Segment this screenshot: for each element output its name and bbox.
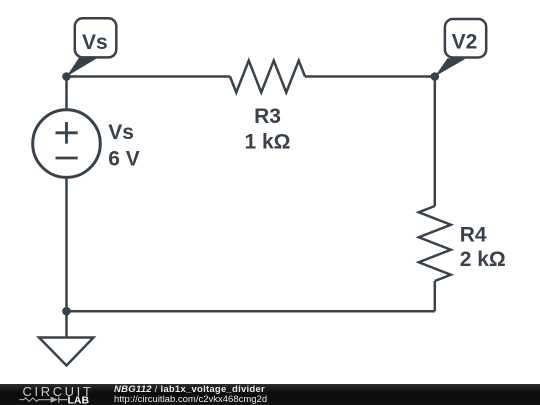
voltage source plus sign xyxy=(56,122,78,144)
resistor R3 xyxy=(230,61,305,93)
wire right vertical upper (node V2 to R4) xyxy=(434,77,437,207)
svg-text:2 kΩ: 2 kΩ xyxy=(460,248,506,271)
wire top-left horizontal (node Vs to R3) xyxy=(67,75,231,78)
voltage source minus sign xyxy=(56,157,78,160)
svg-text:LAB: LAB xyxy=(68,395,90,405)
node V2 junction dot xyxy=(431,72,440,81)
flag Vs pointer xyxy=(67,58,98,77)
svg-text:6 V: 6 V xyxy=(108,147,140,170)
flag V2 pointer xyxy=(435,58,466,76)
svg-text:Vs: Vs xyxy=(82,31,108,54)
svg-text:Vs: Vs xyxy=(108,121,134,144)
svg-text:1 kΩ: 1 kΩ xyxy=(244,131,290,154)
node Vs junction dot xyxy=(62,72,71,81)
resistor R4 xyxy=(419,206,451,281)
ground stub wire xyxy=(65,311,68,337)
node bottom junction dot xyxy=(62,307,71,316)
svg-text:R4: R4 xyxy=(460,224,487,247)
wire left vertical upper (node Vs to source) xyxy=(65,77,68,111)
flag Vs box xyxy=(75,18,117,57)
svg-text:http://circuitlab.com/c2vkx468: http://circuitlab.com/c2vkx468cmg2d xyxy=(114,394,267,405)
flag V2 box xyxy=(445,19,486,58)
ground xyxy=(39,338,94,366)
wire left vertical lower (source to bottom node) xyxy=(65,177,68,311)
wire top-right horizontal (R3 to node V2) xyxy=(305,75,435,78)
wire right vertical lower (R4 to bottom wire) xyxy=(434,281,437,311)
logo squiggle and diode xyxy=(19,398,50,402)
voltage source Vs body xyxy=(33,110,101,178)
svg-text:R3: R3 xyxy=(254,105,281,128)
svg-text:V2: V2 xyxy=(452,31,478,54)
wire bottom horizontal xyxy=(67,310,435,313)
